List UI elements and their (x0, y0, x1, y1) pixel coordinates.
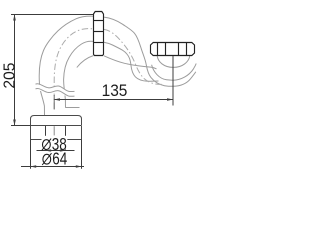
dimension diameter 38: right extension line (65, 126, 67, 151)
dimension 205: top extension line (11, 14, 93, 16)
dimension diameter 38: dimension line (37, 150, 75, 152)
dimension diameter 64: right extension line (continues flange wall) (81, 140, 83, 169)
elbow middle cup arc under right nut (152, 64, 197, 81)
right union nut facet lines (158, 43, 187, 56)
dimension diameter 38: diameter symbol (43, 140, 51, 150)
break band white mask across left leg (35, 84, 75, 98)
dimension diameter 64: dimension line (21, 166, 84, 168)
dimension diameter 38: label with white backing (42, 136, 68, 150)
dimension 135: left arrowhead (54, 98, 61, 101)
trap tube inner wall: left leg up over bend to top nut (64, 41, 94, 107)
dimension diameter 64: diameter symbol (43, 154, 51, 164)
dimension 135: left extension segment on outlet centreline (53, 95, 55, 110)
sleeve bottom edge short line right of inner wall (66, 107, 80, 109)
dimension 135: right arrowhead (167, 98, 174, 101)
trap tube inner wall: right of top nut curling into middle cup (104, 42, 159, 81)
dimension 205: bottom arrowhead (13, 120, 16, 127)
flange skirt right wall (81, 126, 83, 140)
top union nut facet lines (94, 21, 104, 43)
lower S-run bottom wall right of top nut joining middle cup (104, 56, 157, 69)
flange skirt left wall (30, 126, 32, 140)
outlet centreline dash inside flange (53, 126, 55, 135)
dimension diameter 64: label with white backing (42, 152, 69, 166)
dimension 205: bottom extension line (11, 125, 31, 127)
trap tube outer wall: right of top nut down to bottom cup under right nut (104, 17, 196, 86)
lower S-run bottom wall stub left of top nut (77, 56, 94, 68)
dimension diameter 64: left extension line (continues flange wall) (30, 140, 32, 169)
flange: bottom outlet bell (31, 116, 82, 140)
dimension diameter 38: left extension line (45, 126, 47, 151)
top union nut body (94, 12, 104, 56)
svg-text:64: 64 (52, 150, 67, 169)
dimension diameter 38: left arrowhead pointing outward (45, 149, 51, 152)
flange rounded cap (31, 116, 82, 126)
trap tube outer wall: left leg up through top bend to top nut (39, 16, 196, 115)
dimension 205: vertical dimension line (14, 15, 16, 126)
dimension 205: top arrowhead (13, 14, 16, 21)
svg-text:135: 135 (102, 83, 128, 100)
tube centreline dash-dot along S path (54, 29, 164, 109)
dimension 135: right extension line from right nut centre (172, 56, 174, 106)
dimension 135: dimension line (54, 99, 173, 101)
flange bottom edge (31, 139, 82, 141)
break wavy line lower (36, 88, 75, 96)
flange rim line (31, 125, 82, 127)
right union nut body (151, 43, 195, 56)
svg-text:205: 205 (2, 62, 19, 88)
dimension diameter 64: right arrowhead pointing outward (76, 165, 82, 168)
break wavy line upper (36, 84, 75, 92)
elbow small cup arc directly under right nut (157, 56, 190, 68)
dimension diameter 38: right arrowhead pointing outward (60, 149, 66, 152)
dimension diameter 64: left arrowhead pointing outward (30, 165, 36, 168)
